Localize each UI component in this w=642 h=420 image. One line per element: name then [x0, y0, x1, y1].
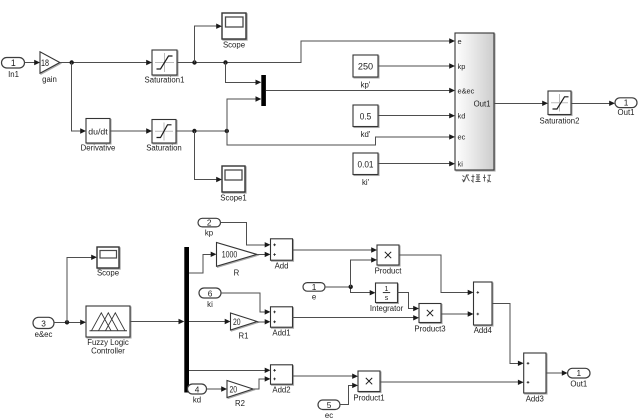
saturation block Saturation1 [145, 50, 185, 85]
svg-text:3: 3 [41, 318, 46, 328]
inport ec (5) [318, 400, 340, 420]
svg-text:ec: ec [325, 411, 333, 420]
subsystem U1 cimokuai [455, 33, 494, 170]
wire e node up to Product input2 [351, 257, 377, 287]
wire mux output to subsystem e&ec input [266, 88, 455, 93]
wire 0.5 to subsystem kd input [378, 113, 455, 118]
product block Product1 [353, 371, 384, 403]
node e branch [349, 285, 353, 289]
wire Product3 to Add4 input2 [441, 311, 474, 316]
wire node D up to mux input 2 [227, 96, 261, 131]
svg-text:R2: R2 [235, 399, 245, 408]
svg-text:ki: ki [458, 160, 464, 169]
constant 0.01 ki' [353, 153, 378, 187]
inport e (1) [303, 282, 325, 302]
scope block Scope1 [220, 166, 246, 203]
svg-text:Add2: Add2 [272, 386, 290, 395]
wire gain node down to Derivative [72, 63, 86, 134]
svg-text:Product: Product [375, 267, 403, 276]
constant 0.5 kd' [353, 105, 378, 139]
demux D1 [184, 247, 189, 393]
svg-text:e&ec: e&ec [35, 330, 53, 339]
sum block Add [271, 239, 293, 271]
svg-text:1: 1 [11, 58, 16, 68]
wire subsystem Out1 to Saturation2 [494, 101, 548, 106]
wire node B down to mux input 1 [226, 63, 262, 86]
svg-text:Derivative: Derivative [81, 144, 116, 153]
scope block Scope [222, 13, 246, 50]
wire R to Add input2 [257, 252, 271, 257]
svg-text:20: 20 [233, 317, 241, 327]
wire ki to Add1 input1 [221, 293, 271, 315]
node Saturation out D [225, 129, 229, 133]
inport kd (4) [188, 384, 207, 405]
node Saturation1 out A [192, 60, 196, 64]
svg-text:0.5: 0.5 [360, 111, 372, 122]
svg-text:Out1: Out1 [474, 99, 491, 108]
svg-text:2: 2 [207, 218, 212, 228]
svg-text:Saturation1: Saturation1 [145, 76, 185, 85]
inport e&ec (3) [33, 317, 54, 339]
wire e&ec to Fuzzy Logic Controller [54, 320, 86, 325]
wire gain to Saturation1 [60, 60, 152, 65]
svg-text:Saturation2: Saturation2 [540, 117, 580, 126]
wire Product to Add4 input1 [399, 255, 474, 295]
wire Integrator to Product3 input1 [398, 293, 420, 312]
svg-text:Product1: Product1 [353, 394, 384, 403]
svg-text:4: 4 [195, 384, 200, 394]
svg-text:0.01: 0.01 [358, 159, 374, 170]
gain block R1 20 [231, 313, 258, 341]
wire Add3 to Out1 [546, 370, 568, 375]
wire 0.01 to subsystem ki input [378, 161, 455, 166]
svg-text:e: e [312, 293, 316, 302]
svg-text:kd: kd [458, 112, 466, 121]
svg-text:kp': kp' [361, 81, 371, 90]
svg-text:ec: ec [458, 133, 466, 142]
sum block Add3 [524, 353, 546, 404]
sum block Add2 [271, 365, 293, 395]
saturation block Saturation2 [540, 91, 580, 126]
wire Saturation1 output to subsystem e input [177, 38, 455, 62]
wire e&ec node up to Scope2 [67, 255, 97, 323]
svg-text:Add4: Add4 [474, 326, 493, 335]
svg-text:kd': kd' [361, 130, 371, 139]
svg-text:1: 1 [312, 282, 317, 292]
wire Product1 to Add3 input2 [380, 380, 524, 385]
svg-text:kp: kp [205, 229, 214, 238]
svg-text:Add3: Add3 [526, 395, 544, 404]
wire node D to subsystem ec input [227, 131, 455, 145]
svg-text:R1: R1 [239, 332, 249, 341]
constant 250 kp' [353, 55, 378, 90]
svg-text:e&ec: e&ec [458, 86, 475, 95]
svg-text:1: 1 [576, 368, 581, 378]
outport Out1 top [615, 98, 637, 117]
svg-text:e: e [458, 37, 462, 46]
svg-text:Scope1: Scope1 [220, 194, 246, 203]
svg-text:s: s [385, 295, 389, 302]
sum block Add4 [474, 282, 493, 335]
mux M1 [261, 75, 266, 106]
wire Fuzzy to demux [130, 319, 184, 324]
wire demux out1 to gain R [189, 252, 217, 273]
svg-text:Controller: Controller [91, 347, 125, 356]
svg-text:Scope: Scope [223, 41, 245, 50]
wire ec to Product1 input2 [340, 383, 358, 405]
derivative block du/dt [81, 119, 116, 153]
svg-text:Out1: Out1 [570, 380, 587, 389]
gain block R2 20 [227, 381, 253, 408]
svg-text:Add: Add [275, 262, 289, 271]
wire e to Integrator [325, 287, 376, 296]
wire 250 to subsystem kp input [378, 63, 455, 68]
svg-text:Product3: Product3 [414, 325, 445, 334]
svg-text:In1: In1 [8, 70, 19, 79]
label cimokuai (CJK strokes) [462, 175, 491, 183]
svg-text:250: 250 [358, 62, 373, 73]
svg-text:ki: ki [207, 300, 213, 309]
svg-text:Saturation: Saturation [146, 144, 182, 153]
svg-text:Integrator: Integrator [370, 304, 404, 313]
svg-text:6: 6 [208, 288, 213, 298]
svg-text:20: 20 [230, 384, 238, 394]
inport ki (6) [199, 288, 221, 309]
svg-text:kp: kp [458, 62, 466, 71]
svg-text:Add1: Add1 [272, 329, 290, 338]
svg-text:1000: 1000 [222, 250, 238, 260]
product block Product [375, 245, 403, 276]
scope block Scope (lower) [97, 247, 119, 278]
wire Add2 to Product1 input1 [293, 374, 359, 379]
svg-text:ki': ki' [362, 178, 370, 187]
gain block R 1000 [217, 243, 257, 278]
svg-text:Scope: Scope [97, 269, 119, 278]
wire Saturation output [176, 130, 227, 132]
integrator block 1/s [370, 283, 404, 313]
svg-text:18: 18 [41, 58, 49, 68]
outport Out1 bottom [568, 368, 590, 389]
inport kp (2) [198, 218, 221, 238]
svg-text:Out1: Out1 [618, 108, 635, 117]
wire R2 to Add2 input2 [253, 376, 271, 389]
saturation block Saturation [146, 120, 182, 153]
sum block Add1 [271, 307, 293, 338]
wire Add4 to Add3 input1 [492, 304, 524, 367]
svg-text:R: R [234, 269, 240, 278]
wire node C down to Scope1 [194, 131, 222, 182]
product block Product3 [414, 304, 445, 334]
svg-text:1: 1 [624, 98, 629, 108]
gain block "18" [40, 52, 60, 84]
node Saturation1 out B [223, 60, 227, 64]
wire kd to gain R2 [207, 386, 228, 391]
wire R1 to Add1 input2 [257, 319, 271, 324]
wire Saturation2 to Out1 [571, 101, 615, 106]
wire Add1 to Product3 input2 [293, 315, 420, 320]
fuzzy logic controller block [86, 306, 130, 356]
wire demux out2 to gain R1 [189, 319, 231, 324]
wire node A up to Scope [195, 24, 223, 63]
node e&ec branch [65, 320, 69, 324]
wire Add to Product input1 [293, 247, 378, 252]
svg-text:du/dt: du/dt [88, 127, 108, 137]
wire kp to Add input1 [221, 223, 271, 248]
node after gain [70, 60, 74, 64]
svg-text:gain: gain [42, 75, 57, 84]
wire demux out3 to Add2 input1 [189, 368, 271, 373]
node Saturation out C [192, 129, 196, 133]
inport In1 [2, 58, 25, 80]
svg-text:5: 5 [327, 400, 332, 410]
wire In1 to gain [25, 60, 41, 65]
svg-text:kd: kd [193, 396, 201, 405]
wire Derivative to Saturation [110, 128, 152, 133]
